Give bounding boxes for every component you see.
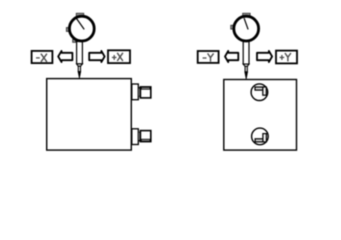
- probe stem (right dial indicator): [243, 42, 249, 80]
- arrow +Y direction (right block arrow): [257, 51, 272, 62]
- arrow -Y direction (left block arrow): [225, 51, 238, 62]
- label box +X: [108, 50, 130, 63]
- arrow -X direction (left block arrow): [58, 51, 72, 62]
- arrow +X direction (right block arrow): [89, 51, 104, 62]
- label box -X: [32, 51, 53, 63]
- dial indicator U1 (left): [66, 13, 94, 42]
- probe stem (left dial indicator): [77, 42, 83, 79]
- dial indicator U2 (right): [231, 13, 259, 41]
- device box (left unit): [47, 79, 132, 151]
- adjuster A2 (lower circle with slot mark): [252, 128, 269, 145]
- adjuster A1 (upper circle with slot mark): [251, 84, 268, 101]
- label box +Y: [276, 51, 297, 64]
- label box -Y: [198, 51, 219, 63]
- device box (right unit): [224, 80, 297, 151]
- connector J2 (lower right of left unit): [132, 129, 151, 145]
- connector J1 (upper right of left unit): [132, 84, 151, 100]
